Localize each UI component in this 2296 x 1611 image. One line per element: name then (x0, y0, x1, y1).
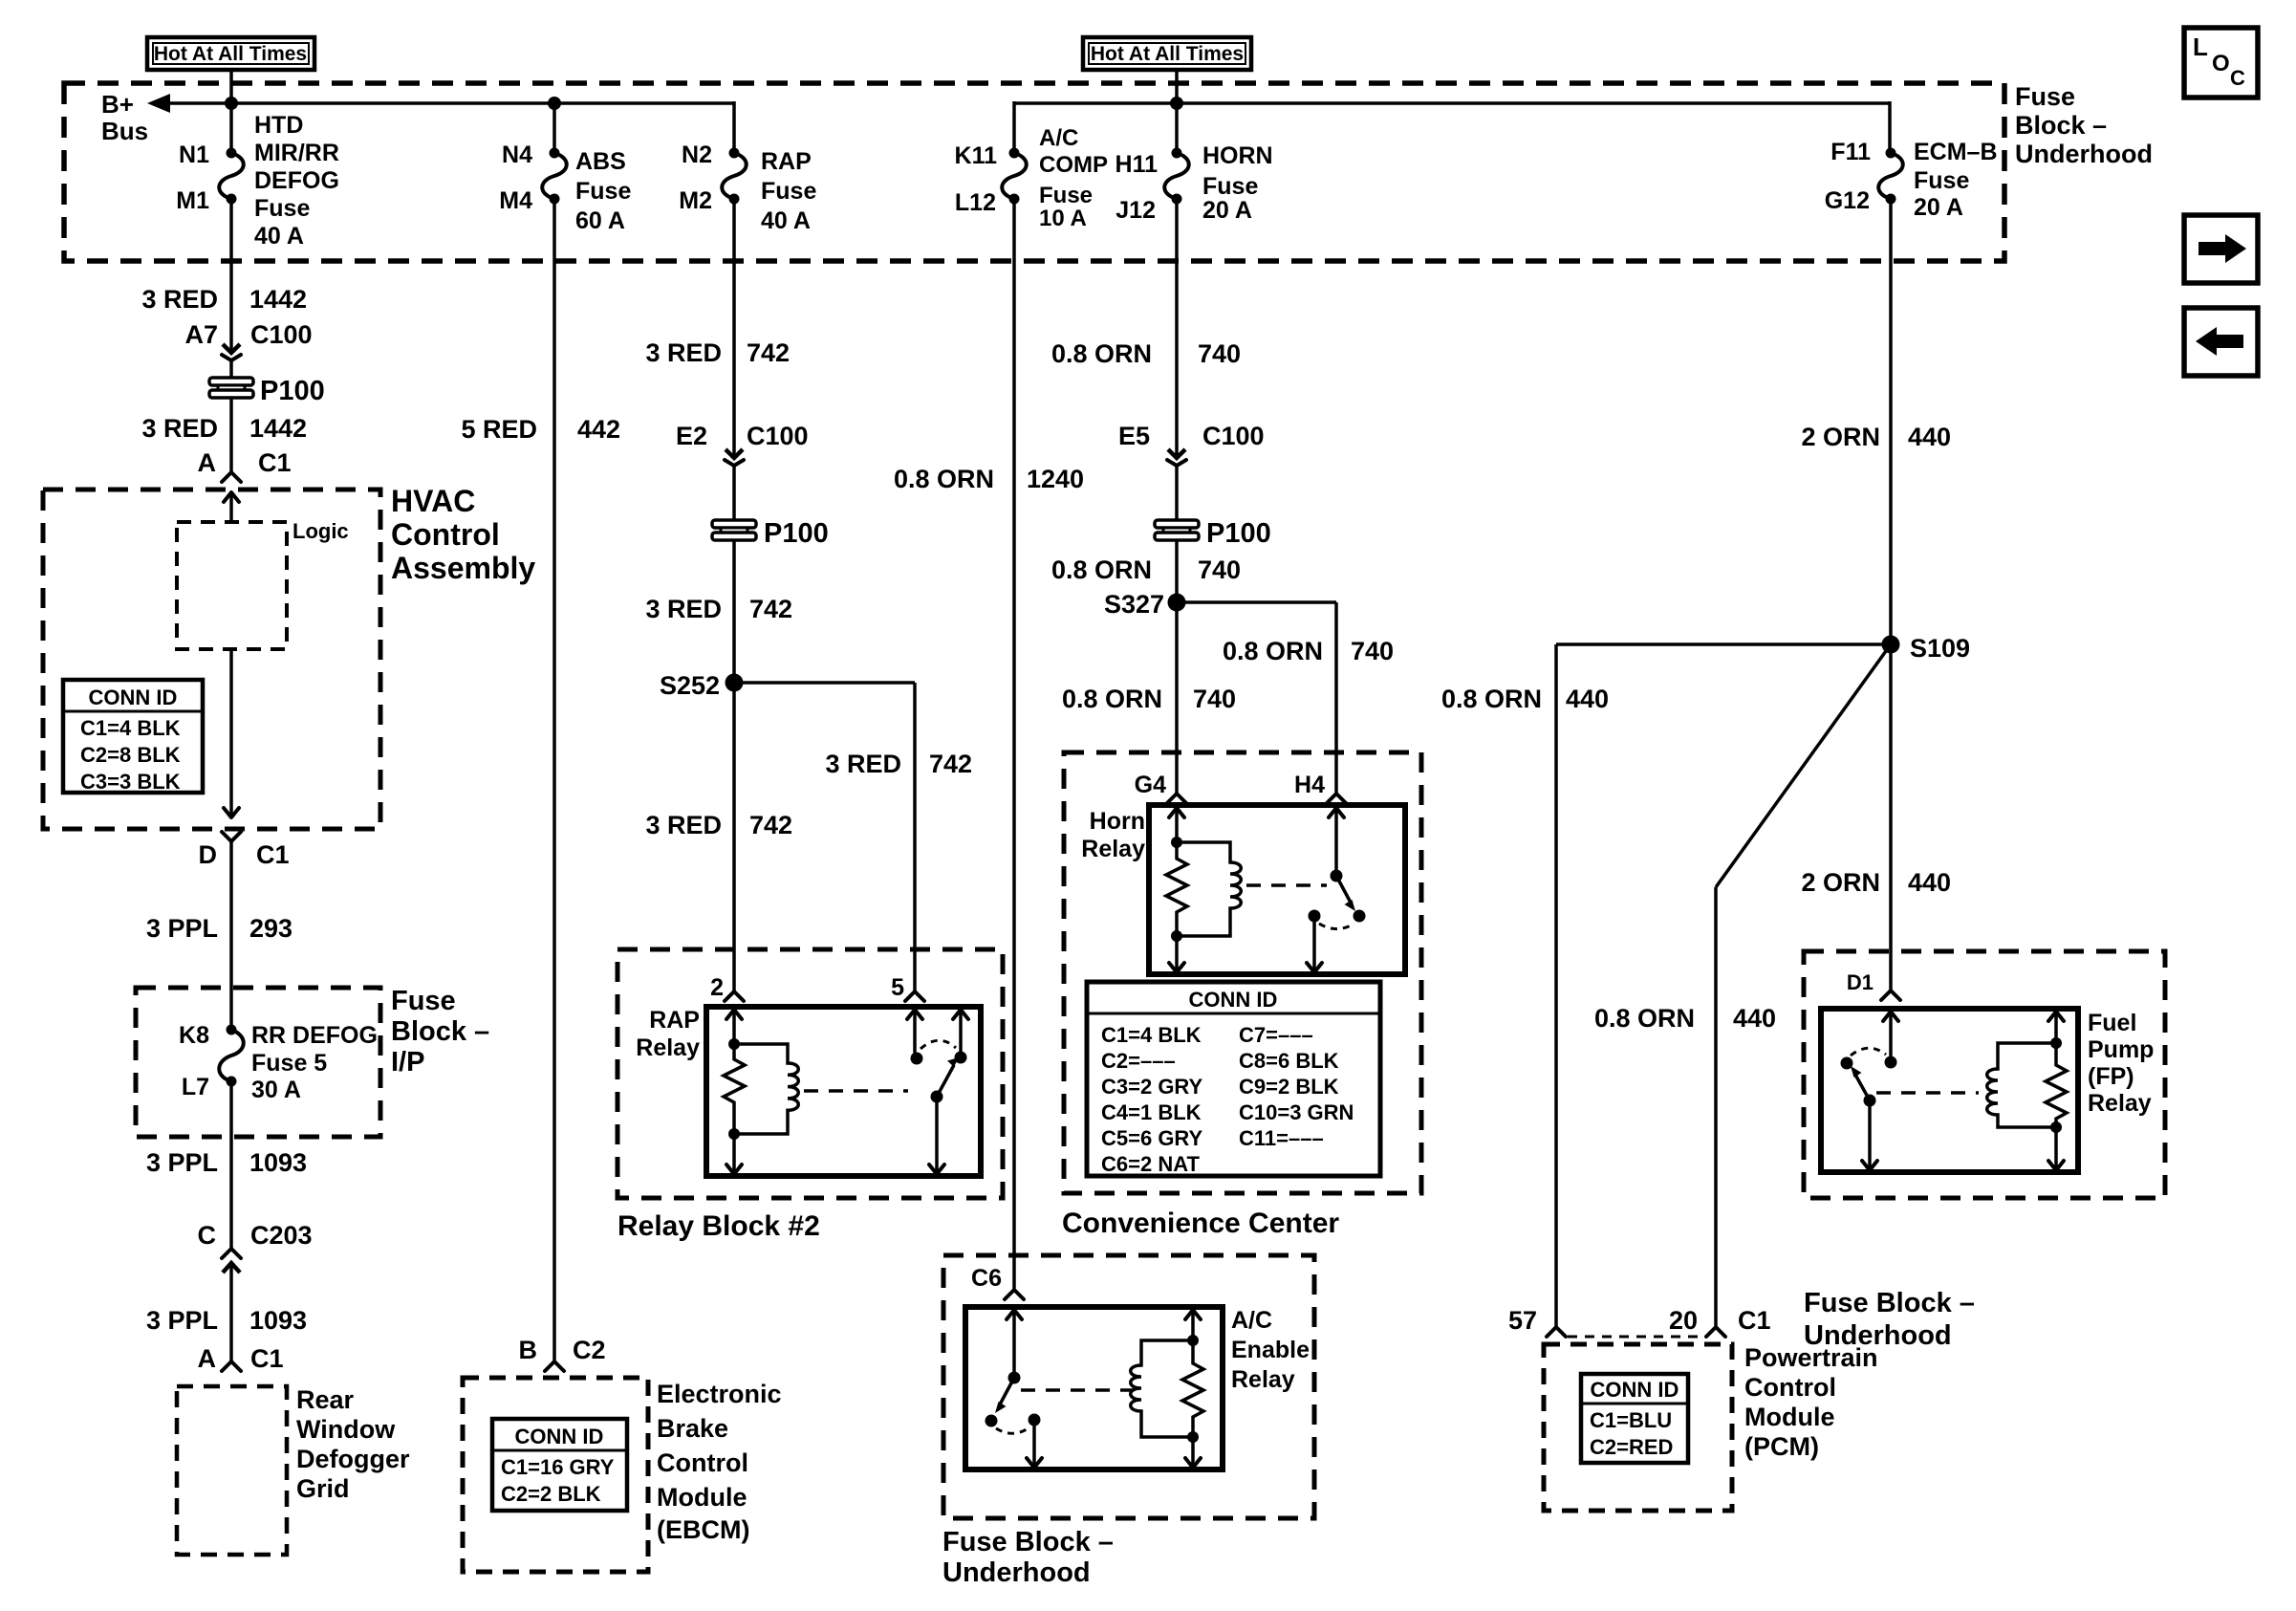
svg-text:D1: D1 (1847, 970, 1874, 994)
LOC indicator box (2184, 28, 2258, 98)
svg-text:A/C: A/C (1231, 1307, 1272, 1334)
svg-text:(FP): (FP) (2088, 1063, 2134, 1090)
svg-text:Fuse: Fuse (2015, 82, 2075, 111)
svg-text:G12: G12 (1825, 187, 1870, 214)
svg-text:20 A: 20 A (1914, 194, 1963, 221)
grommet P100 (RAP feed) (712, 518, 829, 549)
rear window defogger grid dashed box (177, 1385, 410, 1555)
svg-text:C100: C100 (747, 422, 809, 450)
convenience center dashed box (1064, 752, 1421, 1193)
svg-text:M1: M1 (176, 187, 209, 214)
svg-text:C2=–––: C2=––– (1101, 1049, 1176, 1073)
PCM dashed box (1544, 1344, 1732, 1511)
fuse RR DEFOG Fuse 5 30A (K8/L7) (179, 1022, 378, 1103)
svg-text:C2=2 BLK: C2=2 BLK (501, 1482, 601, 1506)
wire below E5 connector (1175, 466, 1179, 521)
connector pin D1 (1847, 970, 1900, 1000)
svg-text:C11=–––: C11=––– (1239, 1126, 1324, 1150)
connector pin C6 into fuse block underhood (971, 1265, 1024, 1299)
svg-text:0.8 ORN: 0.8 ORN (894, 465, 994, 493)
svg-text:0.8 ORN: 0.8 ORN (1051, 555, 1152, 584)
svg-text:5: 5 (891, 974, 904, 1001)
svg-text:C9=2 BLK: C9=2 BLK (1239, 1075, 1339, 1099)
svg-text:Relay Block #2: Relay Block #2 (617, 1210, 820, 1242)
svg-text:Pump: Pump (2088, 1036, 2154, 1063)
svg-text:440: 440 (1566, 685, 1609, 713)
svg-text:0.8 ORN: 0.8 ORN (1223, 637, 1323, 665)
svg-text:O: O (2212, 51, 2230, 76)
svg-text:CONN ID: CONN ID (1189, 988, 1278, 1012)
fuel pump relay actuation dashed link (1876, 1091, 1979, 1095)
A/C enable relay actuation dashed link (1021, 1388, 1133, 1392)
connector C2 pin B into EBCM (519, 1336, 606, 1371)
EBCM dashed box (463, 1378, 648, 1572)
svg-text:740: 740 (1351, 637, 1394, 665)
svg-text:57: 57 (1508, 1306, 1537, 1335)
svg-text:Module: Module (1744, 1403, 1835, 1431)
hot-at-all-times label 1 (147, 37, 314, 70)
wire: S252 branch right (734, 681, 915, 685)
svg-text:742: 742 (749, 595, 792, 623)
connector C1 pin A into HVAC (198, 448, 292, 482)
svg-text:RAP: RAP (761, 148, 812, 175)
svg-text:C6: C6 (971, 1265, 1002, 1292)
svg-text:Underhood: Underhood (2015, 140, 2153, 168)
RAP relay switch (907, 1010, 968, 1174)
svg-text:742: 742 (929, 750, 972, 778)
svg-text:Relay: Relay (2088, 1090, 2152, 1117)
splice S327 (1104, 590, 1186, 619)
svg-text:Fuse Block –: Fuse Block – (1804, 1288, 1975, 1318)
svg-text:J12: J12 (1116, 197, 1156, 224)
svg-text:Fuse: Fuse (1202, 173, 1258, 200)
svg-text:Fuse: Fuse (254, 195, 310, 222)
svg-text:Block –: Block – (391, 1016, 489, 1047)
wire below C100 (229, 360, 233, 379)
svg-text:1442: 1442 (249, 285, 307, 314)
svg-text:M2: M2 (679, 187, 712, 214)
svg-text:D: D (199, 840, 218, 869)
wire: 3 RED 1442 below P100 (229, 399, 233, 472)
svg-text:Fuse: Fuse (1914, 167, 1969, 194)
PCM pin 20 and C1 (1669, 1306, 1771, 1337)
svg-text:0.8 ORN: 0.8 ORN (1062, 685, 1162, 713)
svg-text:3 RED: 3 RED (141, 285, 218, 314)
fuse block I/P dashed box (136, 988, 380, 1137)
grommet P100 (209, 376, 325, 406)
svg-text:Hot At All Times: Hot At All Times (154, 43, 307, 65)
wire: bus corner drop to ECM-B fuse (1888, 101, 1892, 153)
svg-text:P100: P100 (260, 376, 325, 406)
svg-text:CONN ID: CONN ID (1591, 1378, 1679, 1402)
node: bus junction at HORN feed (1170, 97, 1183, 110)
wire below E2 connector (732, 466, 736, 521)
wire: feed from hot box 1 (229, 70, 233, 153)
fuse block underhood dashed box (A/C enable relay) (943, 1255, 1314, 1518)
svg-text:C3=2 GRY: C3=2 GRY (1101, 1075, 1203, 1099)
svg-text:293: 293 (249, 914, 292, 943)
wire: S109 branch left to PCM pin 57 (1441, 644, 1891, 1327)
svg-text:742: 742 (747, 338, 790, 367)
wire: 0.8 ORN 1240 from L12 fuse down to A/C enable relay (1012, 199, 1016, 1290)
svg-text:740: 740 (1198, 339, 1241, 368)
fuse block underhood dashed box (fuel pump relay) (1804, 951, 2165, 1198)
svg-text:P100: P100 (1206, 518, 1271, 549)
fuse A/C COMP 10A (K11/L12) (955, 125, 1108, 231)
conn id table (HVAC) (63, 680, 203, 794)
splice S252 (660, 671, 744, 700)
svg-text:A7: A7 (184, 320, 218, 349)
svg-text:2 ORN: 2 ORN (1801, 868, 1880, 897)
bus bar 2 (A/C comp to ECM-B) (1014, 101, 1890, 105)
svg-text:440: 440 (1733, 1004, 1776, 1033)
svg-text:Rear: Rear (296, 1385, 355, 1414)
svg-text:Control: Control (1744, 1373, 1836, 1402)
wire: arrow up into HVAC logic (224, 492, 239, 522)
svg-text:1093: 1093 (249, 1148, 307, 1177)
fuse block underhood dashed box (top) (64, 83, 2004, 261)
svg-text:Grid: Grid (296, 1474, 350, 1503)
svg-text:K11: K11 (955, 142, 998, 169)
svg-text:B: B (519, 1336, 538, 1364)
svg-text:C7=–––: C7=––– (1239, 1023, 1313, 1047)
conn id table (PCM) (1581, 1374, 1688, 1463)
svg-text:740: 740 (1198, 555, 1241, 584)
pin H4 (1294, 772, 1346, 803)
A/C enable relay switch (986, 1310, 1043, 1468)
wire: 3 PPL 1093 to defogger (229, 1263, 233, 1361)
svg-text:(EBCM): (EBCM) (657, 1515, 749, 1544)
svg-text:N4: N4 (502, 142, 532, 168)
svg-text:C2=RED: C2=RED (1590, 1435, 1673, 1459)
svg-text:C1: C1 (256, 840, 290, 869)
svg-text:0.8 ORN: 0.8 ORN (1051, 339, 1152, 368)
svg-text:C8=6 BLK: C8=6 BLK (1239, 1049, 1339, 1073)
svg-text:C100: C100 (250, 320, 313, 349)
svg-text:Fuse 5: Fuse 5 (251, 1050, 327, 1077)
svg-text:HORN: HORN (1202, 142, 1273, 169)
connector C1 pin A into defogger (198, 1344, 284, 1373)
wire: S327 branch right to H4 (1177, 602, 1394, 794)
svg-text:Control: Control (657, 1448, 748, 1477)
wire: 3 PPL 1093 from L7 down (229, 1081, 233, 1249)
svg-text:3 PPL: 3 PPL (146, 914, 218, 943)
svg-text:Enable: Enable (1231, 1337, 1310, 1363)
connector C100 pin E2 (in-line) (676, 422, 809, 466)
A/C enable relay coil (1131, 1310, 1203, 1468)
svg-text:Underhood: Underhood (942, 1557, 1091, 1588)
svg-text:HVAC: HVAC (391, 484, 475, 518)
svg-text:C6=2 NAT: C6=2 NAT (1101, 1152, 1200, 1176)
pin G4 (1135, 772, 1186, 803)
svg-text:C1=BLU: C1=BLU (1590, 1408, 1672, 1432)
svg-text:40 A: 40 A (761, 207, 811, 234)
svg-text:Module: Module (657, 1483, 747, 1512)
horn relay actuation dashed link (1246, 883, 1327, 887)
svg-text:2 ORN: 2 ORN (1801, 423, 1880, 451)
svg-text:N1: N1 (179, 142, 209, 168)
svg-text:1442: 1442 (249, 414, 307, 443)
svg-text:E5: E5 (1118, 422, 1150, 450)
svg-text:0.8 ORN: 0.8 ORN (1594, 1004, 1695, 1033)
PCM pin 57 (1508, 1306, 1566, 1337)
nav arrow left box (2184, 308, 2258, 376)
nav arrow right box (2184, 215, 2258, 283)
svg-text:3 RED: 3 RED (645, 338, 722, 367)
svg-text:40 A: 40 A (254, 223, 304, 250)
horn relay coil branch (1166, 808, 1241, 972)
wire: 3 PPL 293 down to fuse block I/P (229, 841, 233, 1030)
conn id table (convenience center) (1087, 982, 1380, 1176)
wire: logic box down to HVAC bottom with arrow (224, 649, 239, 817)
svg-text:Fuse: Fuse (391, 986, 456, 1016)
splice S109 (1882, 634, 1971, 663)
svg-text:3 PPL: 3 PPL (146, 1306, 218, 1335)
svg-text:3 PPL: 3 PPL (146, 1148, 218, 1177)
svg-text:Assembly: Assembly (391, 551, 535, 585)
fuse ABS 60A (N4/M4) (499, 142, 631, 234)
svg-text:Brake: Brake (657, 1414, 728, 1443)
svg-text:Fuse: Fuse (1039, 183, 1093, 208)
svg-text:P100: P100 (764, 518, 829, 549)
svg-text:ECM–B: ECM–B (1914, 139, 1998, 165)
svg-text:20: 20 (1669, 1306, 1698, 1335)
svg-text:N2: N2 (682, 142, 712, 168)
fuel pump relay coil (1987, 1012, 2067, 1170)
svg-text:CONN ID: CONN ID (89, 686, 178, 709)
svg-text:C1=4 BLK: C1=4 BLK (80, 716, 181, 740)
svg-text:E2: E2 (676, 422, 707, 450)
svg-text:M4: M4 (499, 187, 532, 214)
svg-text:Bus: Bus (101, 117, 148, 145)
PCM title (1744, 1343, 1878, 1461)
wire: 3 RED 742 below P100 (732, 541, 736, 991)
svg-text:440: 440 (1908, 868, 1951, 897)
connector C100 pin A7 (in-line) (184, 320, 312, 360)
pin 5 of RAP relay (891, 974, 924, 1001)
wire: 0.8 ORN 740 S327 down to G4 (1175, 602, 1179, 794)
svg-text:DEFOG: DEFOG (254, 167, 339, 194)
dashed connector line between pins 57 and 20 (1568, 1336, 1704, 1339)
svg-text:3 RED: 3 RED (645, 811, 722, 839)
HVAC control assembly dashed box (43, 490, 380, 829)
fuse ECM-B 20A (F11/G12) (1825, 139, 1998, 221)
horn relay box (1081, 805, 1405, 974)
svg-text:C: C (198, 1221, 217, 1250)
relay block #2 dashed box (617, 949, 1003, 1198)
wire: 0.8 ORN 740 below P100 (1175, 541, 1179, 602)
svg-text:L7: L7 (182, 1074, 209, 1100)
svg-text:S327: S327 (1104, 590, 1164, 619)
node: bus junction at HTD feed (225, 97, 238, 110)
B+ bus bar with arrow (101, 90, 734, 145)
svg-text:L: L (2193, 33, 2208, 61)
fuse HTD MIR/RR DEFOG 40A (N1/M1) (176, 112, 339, 250)
svg-text:Hot At All Times: Hot At All Times (1091, 43, 1244, 65)
svg-text:C1: C1 (250, 1344, 284, 1373)
svg-text:S252: S252 (660, 671, 720, 700)
wire: 0.8 ORN 740 from J12 fuse down (1175, 199, 1179, 458)
svg-text:3 RED: 3 RED (141, 414, 218, 443)
svg-text:Block –: Block – (2015, 111, 2107, 140)
fuse HORN 20A (H11/J12) (1116, 142, 1273, 224)
svg-text:A: A (198, 448, 217, 477)
svg-text:ABS: ABS (575, 148, 626, 175)
svg-text:K8: K8 (179, 1022, 209, 1049)
svg-text:H11: H11 (1116, 151, 1159, 178)
svg-text:Convenience Center: Convenience Center (1062, 1208, 1339, 1239)
svg-text:Powertrain: Powertrain (1744, 1343, 1878, 1372)
svg-text:C203: C203 (250, 1221, 313, 1250)
wire: bus drop to ABS fuse (552, 103, 556, 153)
svg-text:20 A: 20 A (1202, 197, 1252, 224)
wire: 3 RED 1442 from M1 fuse down (229, 199, 233, 353)
svg-text:5 RED: 5 RED (461, 415, 537, 444)
fuel pump relay switch (1841, 1012, 1899, 1170)
svg-text:HTD: HTD (254, 112, 303, 139)
svg-text:B+: B+ (101, 90, 134, 119)
svg-text:A: A (198, 1344, 217, 1373)
pin 2 of RAP relay (710, 974, 744, 1001)
svg-text:RR DEFOG: RR DEFOG (251, 1022, 378, 1049)
svg-text:Horn: Horn (1090, 808, 1145, 835)
svg-text:10 A: 10 A (1039, 206, 1087, 231)
svg-text:Fuse: Fuse (761, 178, 816, 205)
svg-text:C1=16 GRY: C1=16 GRY (501, 1455, 615, 1479)
svg-text:1240: 1240 (1027, 465, 1084, 493)
svg-text:C1=4 BLK: C1=4 BLK (1101, 1023, 1202, 1047)
svg-text:C4=1 BLK: C4=1 BLK (1101, 1100, 1202, 1124)
svg-text:2: 2 (710, 974, 724, 1001)
wire: 3 RED 742 from M2 fuse down (732, 199, 736, 458)
svg-text:442: 442 (577, 415, 620, 444)
svg-text:Relay: Relay (636, 1034, 700, 1061)
grommet P100 (horn feed) (1155, 518, 1271, 549)
conn id table (EBCM) (492, 1419, 627, 1511)
logic dashed box inside HVAC (177, 519, 349, 649)
svg-text:Fuel: Fuel (2088, 1010, 2136, 1036)
RAP relay coil branch (724, 1010, 798, 1174)
svg-text:G4: G4 (1135, 772, 1166, 798)
wire: 2 ORN 440 from G12 fuse down (1889, 199, 1893, 991)
hot-at-all-times label 2 (1083, 37, 1251, 70)
svg-text:Control: Control (391, 517, 500, 552)
svg-text:3 RED: 3 RED (645, 595, 722, 623)
horn relay switch (1307, 808, 1366, 972)
wire: bus corner drop to RAP fuse (732, 101, 736, 153)
svg-text:(PCM): (PCM) (1744, 1432, 1819, 1461)
svg-text:RAP: RAP (649, 1007, 700, 1034)
svg-text:440: 440 (1908, 423, 1951, 451)
RAP relay actuation dashed link (804, 1089, 908, 1093)
svg-text:I/P: I/P (391, 1047, 424, 1078)
svg-text:L12: L12 (955, 189, 996, 216)
svg-text:C5=6 GRY: C5=6 GRY (1101, 1126, 1203, 1150)
svg-text:Fuse: Fuse (575, 178, 631, 205)
wire: S109 diagonal branch to PCM pin 20 (1594, 644, 1891, 1327)
fuel pump relay box (1821, 1009, 2154, 1172)
A/C enable relay box (965, 1307, 1310, 1469)
svg-text:30 A: 30 A (251, 1077, 301, 1103)
svg-text:Relay: Relay (1231, 1366, 1295, 1393)
connector C203 pin C (in-line) (198, 1221, 313, 1273)
node: bus junction at ABS feed (548, 97, 561, 110)
svg-text:1093: 1093 (249, 1306, 307, 1335)
fuse RAP 40A (N2/M2) (679, 142, 816, 234)
EBCM title (657, 1380, 782, 1544)
svg-text:H4: H4 (1294, 772, 1325, 798)
svg-text:Defogger: Defogger (296, 1445, 410, 1473)
connector C1 pin D leaving HVAC (199, 832, 290, 869)
svg-text:Window: Window (296, 1415, 396, 1444)
svg-text:Logic: Logic (292, 519, 349, 543)
svg-text:C2: C2 (573, 1336, 606, 1364)
svg-text:Relay: Relay (1081, 836, 1145, 862)
connector C100 pin E5 (in-line) (1118, 422, 1265, 466)
svg-text:C2=8 BLK: C2=8 BLK (80, 743, 181, 767)
svg-text:C100: C100 (1202, 422, 1265, 450)
wire: feed from hot box 2 (1175, 70, 1179, 153)
svg-text:F11: F11 (1830, 139, 1871, 165)
svg-text:A/C: A/C (1039, 125, 1078, 151)
svg-text:C10=3 GRN: C10=3 GRN (1239, 1100, 1354, 1124)
svg-text:Electronic: Electronic (657, 1380, 782, 1408)
svg-text:3 RED: 3 RED (825, 750, 901, 778)
svg-text:740: 740 (1193, 685, 1236, 713)
wire: branch down to pin 5 (913, 683, 917, 991)
wire: 5 RED 442 from M4 fuse to EBCM (552, 199, 556, 1361)
svg-text:CONN ID: CONN ID (515, 1425, 604, 1448)
svg-text:742: 742 (749, 811, 792, 839)
svg-text:COMP: COMP (1039, 152, 1108, 178)
wire: bus corner drop to A/C comp fuse (1012, 101, 1016, 153)
svg-text:C3=3 BLK: C3=3 BLK (80, 770, 181, 794)
RAP relay box (636, 1007, 981, 1176)
svg-text:C1: C1 (258, 448, 292, 477)
svg-text:C1: C1 (1738, 1306, 1771, 1335)
svg-text:60 A: 60 A (575, 207, 625, 234)
svg-text:C: C (2230, 66, 2245, 90)
svg-text:MIR/RR: MIR/RR (254, 140, 339, 166)
svg-text:Fuse Block –: Fuse Block – (942, 1527, 1114, 1557)
svg-text:0.8 ORN: 0.8 ORN (1441, 685, 1542, 713)
svg-text:S109: S109 (1910, 634, 1970, 663)
